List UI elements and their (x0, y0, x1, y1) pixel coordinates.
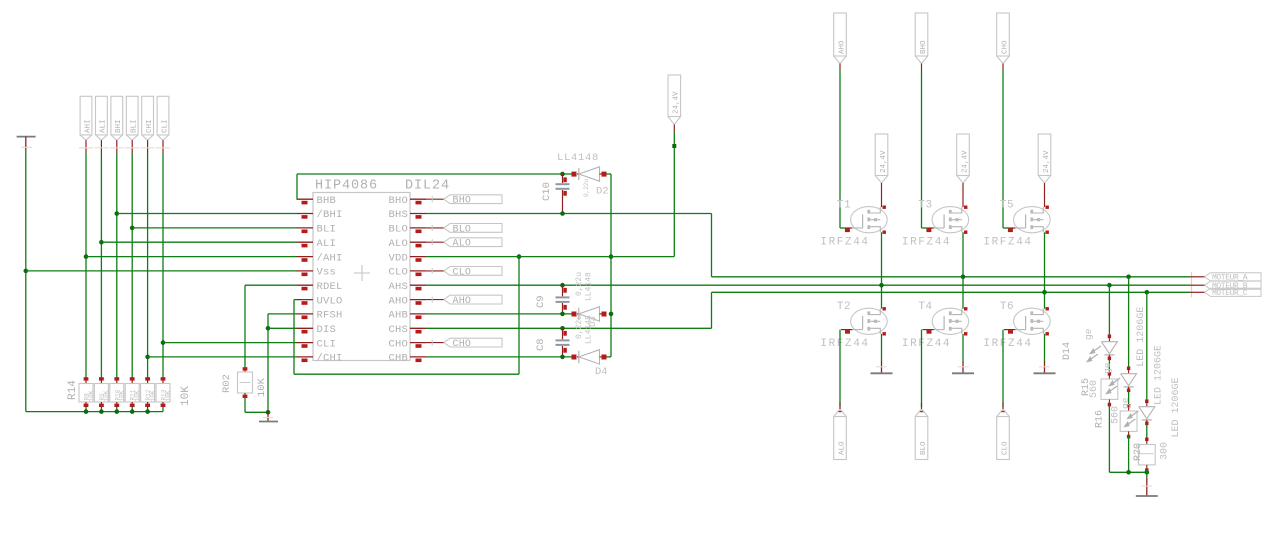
svg-text:R20: R20 (1133, 443, 1144, 461)
node flag ALO (426, 241, 443, 243)
transistor T4 IRFZ44 (932, 308, 969, 334)
svg-text:BHO: BHO (920, 40, 928, 54)
resistor R8 10K (85, 377, 87, 384)
wire T4 source to ground (962, 334, 964, 361)
pin gate T4 (923, 329, 934, 331)
pin /CHI (left 12) (297, 356, 314, 358)
wire CLI to IC pin (163, 342, 297, 344)
node flag BHO (426, 198, 443, 200)
wire BLI column (131, 153, 133, 377)
pin source T6 (1046, 332, 1049, 335)
pin source T3 (964, 231, 967, 234)
svg-text:IRFZ44: IRFZ44 (983, 338, 1032, 350)
node C10 top junction (560, 172, 565, 177)
wire CHS phase (426, 327, 711, 329)
node VDD loop junction (517, 254, 522, 259)
node gnd rail junction R10 (115, 409, 120, 414)
svg-text:T4: T4 (918, 301, 932, 313)
node flag BHO (gate of T3) (915, 13, 928, 56)
transistor T5 IRFZ44 (1014, 207, 1051, 233)
capacitor C10 0,22u (562, 174, 564, 183)
ground GND3 (LED rail) (1146, 478, 1148, 496)
pin AHS (right 18) (410, 284, 426, 286)
wire CHI to IC pin (148, 356, 297, 358)
wire T4 drain from phase (962, 277, 964, 309)
svg-text:R16: R16 (1095, 410, 1106, 428)
LED D14 LED 1206GE (1108, 335, 1111, 339)
symbol cross U1 center (354, 272, 370, 274)
svg-text:CLO: CLO (453, 267, 472, 278)
pin ALO (right 21) (410, 241, 426, 243)
wire T2 drain from phase (881, 285, 883, 309)
op-amp U1 HIP4086 DIL24 body (313, 193, 410, 361)
pin RFSH (left 9) (297, 313, 314, 315)
node C8 top junction (560, 326, 565, 331)
svg-text:CHB: CHB (388, 353, 408, 365)
diode D2 LL4148 (572, 172, 577, 177)
svg-text:D4: D4 (595, 366, 608, 378)
connector pin ALI (96, 96, 108, 135)
svg-text:D2: D2 (596, 186, 609, 198)
wire BHS corner down to phase line 1 (711, 214, 713, 277)
svg-text:RFSH: RFSH (317, 310, 343, 322)
wire LED chain 2 tap (phase B) (1126, 275, 1131, 280)
svg-text:24,4V: 24,4V (880, 150, 888, 173)
node phase junction column 2 (961, 275, 966, 280)
LED D16 LED 1206GE (1145, 400, 1148, 404)
pin BHB (left 1) (297, 198, 314, 200)
svg-text:BLI: BLI (317, 224, 337, 236)
wire CHO gate net (1002, 70, 1004, 228)
node Vss junction (24, 269, 29, 274)
svg-text:C10: C10 (541, 182, 553, 201)
transistor T3 IRFZ44 (932, 207, 969, 233)
svg-text:BHO: BHO (453, 196, 472, 207)
wire T1 source to phase (881, 232, 883, 285)
pin BLO (right 22) (410, 227, 426, 229)
svg-text:BHO: BHO (388, 195, 408, 207)
pin drain T2 (883, 307, 886, 310)
wire phase line 1 (712, 276, 1191, 278)
svg-text:T3: T3 (918, 200, 932, 212)
svg-text:BHB: BHB (317, 195, 337, 207)
node C8 bottom junction (560, 355, 565, 360)
svg-text:CHO: CHO (1001, 40, 1009, 54)
svg-text:AHO: AHO (453, 296, 472, 307)
svg-text:0,22u: 0,22u (583, 179, 590, 197)
svg-text:AHO: AHO (838, 40, 846, 54)
wire T2 source to ground (881, 334, 883, 361)
LED D15 LED 1206GE (1127, 367, 1130, 371)
node flag CLO (426, 270, 443, 272)
svg-text:LED 1206GE: LED 1206GE (1136, 307, 1147, 367)
svg-text:CHS: CHS (388, 324, 408, 336)
wire phase line 3 (712, 291, 1191, 293)
svg-text:CLO: CLO (1001, 441, 1009, 455)
transistor T1 IRFZ44 (851, 207, 888, 233)
wire GND vertical left (25, 150, 27, 412)
ground GND2 (below R02) (267, 412, 269, 421)
svg-text:IRFZ44: IRFZ44 (902, 338, 951, 350)
svg-text:T5: T5 (1000, 200, 1014, 212)
svg-text:IRFZ44: IRFZ44 (902, 237, 951, 249)
node led rail junction R16 (1126, 470, 1131, 475)
pin CLI (left 11) (297, 342, 314, 344)
svg-text:T1: T1 (837, 200, 851, 212)
svg-text:ALI: ALI (317, 238, 337, 250)
svg-text:DIS: DIS (317, 324, 337, 336)
svg-text:ge: ge (1083, 328, 1094, 340)
wire R8 to gnd rail (85, 408, 87, 412)
resistor R20 300 (1145, 438, 1148, 442)
node flag AHO (426, 299, 443, 301)
node flag BLO (426, 227, 443, 229)
pin drain T4 (964, 307, 967, 310)
wire BHI to IC pin (117, 213, 297, 215)
wire BHB bootstrap loop (296, 198, 299, 200)
wire 24,4V supply drop (673, 131, 675, 257)
pin /AHI (left 5) (297, 256, 314, 258)
svg-text:ge: ge (1120, 397, 1131, 409)
pin source T1 (883, 231, 886, 234)
svg-text:ALO: ALO (388, 238, 408, 250)
wire ALO gate net (839, 330, 841, 407)
svg-text:BLO: BLO (453, 224, 472, 235)
svg-text:BHS: BHS (388, 209, 408, 221)
wire AHO gate net (839, 70, 841, 228)
svg-text:LL4148: LL4148 (585, 272, 594, 301)
wire AHI to IC pin (86, 256, 297, 258)
svg-text:BLI: BLI (131, 119, 139, 133)
svg-text:AHI: AHI (84, 119, 92, 133)
wire ALI to IC pin (101, 241, 296, 243)
svg-text:0,22u: 0,22u (575, 272, 584, 296)
pin gate T3 (928, 227, 934, 229)
node flag ALO (gate of T2) (838, 411, 843, 413)
svg-text:24,4V: 24,4V (1043, 150, 1051, 173)
node flag AHO (gate of T1) (834, 13, 847, 56)
pin source T2 (883, 332, 886, 335)
svg-text:CLO: CLO (388, 267, 408, 279)
node flag CHO (gate of T5) (997, 13, 1010, 56)
resistor R11 10K (131, 377, 133, 384)
wire RFSH-DIS to ground vertical (268, 313, 297, 315)
svg-text:RDEL: RDEL (317, 281, 343, 293)
wire CHS corner up to phase line 3 (711, 292, 713, 328)
node flag CHO (426, 342, 443, 344)
node ALI tap junction (99, 240, 104, 245)
node gnd rail junction R11 (130, 409, 135, 414)
svg-text:VDD: VDD (388, 252, 408, 264)
capacitor C8 0,22u (562, 328, 564, 339)
node gnd rail junction R9 (99, 409, 104, 414)
resistor R02 10K (244, 367, 246, 372)
svg-text:/CHI: /CHI (317, 353, 343, 365)
wire T5 source to phase (1044, 232, 1046, 292)
diode D3 LL4148 (572, 312, 577, 317)
node gnd rail junction R8 (84, 409, 89, 414)
wire R9 to gnd rail (100, 408, 102, 412)
supply +24,4V flag (T1 drain) (875, 134, 888, 176)
connector pin AHI (80, 96, 92, 135)
pin drain T3 (964, 206, 967, 209)
transistor T2 IRFZ44 (851, 308, 888, 334)
pin ALI (left 4) (297, 241, 314, 243)
wire Vss row to IC (26, 270, 297, 272)
pin UVLO (left 8) (297, 299, 314, 301)
pin gate T2 (841, 329, 852, 331)
diode D4 LL4148 (572, 355, 577, 360)
wire D14 to R15 (1108, 360, 1110, 373)
ground GND (T6 source) (1044, 361, 1046, 373)
svg-text:IRFZ44: IRFZ44 (820, 338, 869, 350)
pin drain T6 (1046, 307, 1049, 310)
wire R02 to ground (244, 399, 246, 413)
svg-text:UVLO: UVLO (317, 295, 343, 307)
connector pin CLI (157, 96, 169, 135)
svg-text:LED 1206GE: LED 1206GE (1171, 377, 1182, 437)
pin CHO (right 14) (410, 342, 426, 344)
svg-text:D14: D14 (1062, 342, 1073, 360)
pin drain T5 (1046, 206, 1049, 209)
wire CLO gate net (1002, 330, 1004, 407)
resistor R9 10K (100, 377, 102, 384)
svg-text:10K: 10K (165, 390, 172, 401)
node CLI tap junction (161, 340, 166, 345)
svg-text:T2: T2 (837, 301, 851, 313)
node gnd rail junction R12 (145, 409, 150, 414)
svg-text:LED 1206GE: LED 1206GE (1154, 345, 1165, 405)
node DIS junction (266, 326, 271, 331)
node flag MOTEUR_A (1190, 276, 1205, 278)
svg-text:/AHI: /AHI (317, 252, 343, 264)
wire R20 to ground (1146, 470, 1148, 479)
svg-text:24,4V: 24,4V (673, 91, 681, 114)
svg-text:10K: 10K (103, 390, 110, 401)
pin BLI (left 3) (297, 227, 314, 229)
ground GND (T4 source) (962, 361, 964, 373)
wire D2 anode to VDD rail (607, 173, 612, 175)
svg-text:BLO: BLO (920, 441, 928, 455)
pin DIS (left 10) (297, 327, 314, 329)
svg-text:Vss: Vss (317, 267, 337, 279)
svg-text:T6: T6 (1000, 301, 1014, 313)
wire 24,4V to T1 drain (881, 183, 883, 207)
resistor R15 560 (1108, 372, 1111, 376)
wire D4 anode to VDD rail corner (607, 356, 612, 358)
node flag BLO (gate of T4) (919, 411, 924, 413)
wire VDD row (426, 256, 674, 258)
wire CHI column (147, 153, 149, 377)
supply +24,4V flag (T5 drain) (1038, 134, 1051, 176)
pin BHO (right 24) (410, 198, 426, 200)
svg-text:DIL24: DIL24 (405, 179, 450, 194)
wire BLI to IC pin (132, 227, 296, 229)
node phase junction column 3 (1042, 290, 1047, 295)
resistor R16 560 (1127, 404, 1130, 408)
svg-text:IRFZ44: IRFZ44 (983, 237, 1032, 249)
connector pin CHI (142, 96, 154, 135)
wire ALI column (100, 153, 102, 377)
svg-text:CHO: CHO (453, 339, 472, 350)
svg-text:ALO: ALO (838, 441, 846, 455)
wire BHO gate net (921, 70, 923, 228)
pin AHB (right 16) (410, 313, 426, 315)
pin CHB (right 13) (410, 356, 426, 358)
pin source T5 (1046, 231, 1049, 234)
pin Vss (left 6) (297, 270, 314, 272)
node phase junction column 1 (879, 283, 884, 288)
wire BLO gate net (921, 330, 923, 407)
node VDD rail junctions (609, 254, 614, 259)
wire RDEL to R02 (245, 284, 297, 286)
resistor R13 10K (162, 377, 164, 384)
wire R13 to gnd rail (162, 408, 164, 412)
svg-text:C8: C8 (535, 338, 547, 351)
wire under-IC VDD loop (294, 373, 519, 375)
wire AHS phase line 2 (426, 284, 1190, 286)
wire R15 to led rail (1108, 404, 1110, 472)
wire 24,4V to T5 drain (1044, 183, 1046, 207)
svg-text:/BHI: /BHI (317, 209, 343, 221)
pin BHS (right 23) (410, 213, 426, 215)
transistor T6 IRFZ44 (1014, 308, 1051, 334)
wire T3 source to phase (962, 232, 964, 276)
pin drain T1 (883, 206, 886, 209)
svg-text:HIP4086: HIP4086 (315, 179, 378, 194)
resistor R12 10K (147, 377, 149, 384)
node flag MOTEUR_B (1190, 284, 1205, 286)
node BHI tap junction (115, 211, 120, 216)
pin /BHI (left 2) (297, 213, 314, 215)
connector MOTEUR pins (1191, 272, 1193, 298)
wire BHI column (116, 153, 118, 377)
svg-text:C9: C9 (535, 295, 547, 308)
svg-text:AHS: AHS (388, 281, 408, 293)
svg-text:10K: 10K (134, 390, 141, 401)
pin RDEL (left 7) (297, 284, 314, 286)
svg-text:BLO: BLO (388, 224, 408, 236)
wire T6 drain from phase (1044, 292, 1046, 308)
svg-text:AHB: AHB (388, 310, 408, 322)
pin VDD (right 20) (410, 256, 426, 258)
node led rail junction R20 (1145, 470, 1150, 475)
wire GND bottom rail (26, 411, 163, 413)
node flag MOTEUR_C (1190, 291, 1205, 293)
wire 24,4V to T3 drain (962, 183, 964, 207)
supply +24,4V flag (T3 drain) (957, 134, 970, 176)
svg-text:LL4148: LL4148 (557, 152, 599, 164)
svg-text:AHO: AHO (388, 295, 408, 307)
svg-text:ge: ge (1102, 362, 1113, 374)
node C10 bottom junction (560, 211, 565, 216)
wire R12 to gnd rail (147, 408, 149, 412)
svg-text:R02: R02 (221, 374, 233, 393)
svg-text:LL4148: LL4148 (585, 315, 594, 344)
svg-text:0,22u: 0,22u (575, 315, 584, 339)
wire CHB row (426, 356, 572, 358)
connector pin BHI (111, 96, 123, 135)
svg-text:CLI: CLI (317, 338, 337, 350)
resistor R10 10K (116, 377, 118, 384)
capacitor C9 0,22u (560, 283, 565, 288)
node BLI tap junction (130, 226, 135, 231)
svg-text:10K: 10K (256, 377, 268, 397)
pin gate T1 (846, 227, 852, 229)
node AHI tap junction (84, 254, 89, 259)
pin CLO (right 19) (410, 270, 426, 272)
svg-text:CLI: CLI (161, 119, 169, 133)
svg-text:10K: 10K (119, 390, 126, 401)
svg-text:10K: 10K (180, 386, 192, 406)
supply +24,4V flag (668, 75, 681, 117)
svg-text:BHI: BHI (115, 119, 123, 133)
connector pin BLI (126, 96, 138, 135)
wire LED chain 3 tap (phase C) (1145, 290, 1150, 295)
svg-text:ALO: ALO (453, 239, 472, 250)
wire R11 to gnd rail (131, 408, 133, 412)
ground GND (top-left supply symbol) (17, 136, 36, 138)
ground GND (T2 source) (881, 361, 883, 373)
node C9 bottom junction (560, 312, 565, 317)
svg-text:ALI: ALI (100, 119, 108, 133)
wire CLI column (162, 153, 164, 377)
svg-text:CHI: CHI (146, 119, 154, 133)
svg-text:10K: 10K (88, 390, 95, 401)
wire D15 to R16 (1128, 392, 1130, 405)
wire R16 to led rail (1128, 436, 1130, 472)
wire BHS phase (426, 213, 711, 215)
wire LED chain 1 tap (phase A) (1107, 283, 1112, 288)
svg-text:24,4V: 24,4V (961, 150, 969, 173)
svg-text:MOTEUR_C: MOTEUR_C (1212, 289, 1248, 298)
wire UVLO loop down (294, 299, 297, 301)
pin gate T5 (1009, 227, 1015, 229)
pin AHO (right 17) (410, 299, 426, 301)
svg-text:CHO: CHO (388, 338, 408, 350)
wire DIS to IC (268, 327, 297, 329)
pin CHS (right 15) (410, 327, 426, 329)
svg-text:10K: 10K (149, 390, 156, 401)
pin source T4 (964, 332, 967, 335)
wire D16 to R20 (1146, 425, 1148, 438)
svg-text:R14: R14 (67, 380, 79, 400)
node ground junction (266, 410, 271, 415)
node CHI tap junction (145, 355, 150, 360)
svg-text:IRFZ44: IRFZ44 (820, 237, 869, 249)
svg-text:560: 560 (1089, 380, 1100, 398)
wire AHB row (426, 313, 572, 315)
svg-text:300: 300 (1160, 442, 1171, 460)
pin gate T6 (1004, 329, 1015, 331)
node flag CLO (gate of T6) (1001, 411, 1006, 413)
wire T6 source to ground (1044, 334, 1046, 361)
wire AHI column (85, 153, 87, 377)
wire R10 to gnd rail (116, 408, 118, 412)
